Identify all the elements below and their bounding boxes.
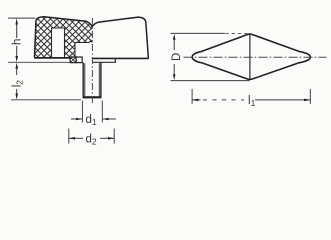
svg-text:D: D xyxy=(171,53,183,61)
l2 bottom extension line xyxy=(11,99,81,101)
d2 arrowhead pointing right xyxy=(108,137,114,140)
d2 arrowhead pointing left xyxy=(69,137,75,140)
l1 arrowhead pointing right xyxy=(304,99,310,102)
l1 left extension line xyxy=(191,89,193,104)
d1 left leader line xyxy=(71,118,82,120)
knob body outline (left edge, wing tops, saddle, right edge) xyxy=(35,17,149,59)
d1 right leader line xyxy=(103,118,116,120)
l1 dimension line left faded dashed part xyxy=(203,99,244,101)
moulding pocket cavity in left wing xyxy=(52,28,65,58)
dimension d2 (collar diameter) xyxy=(69,129,114,147)
d2 left extension line xyxy=(68,129,70,144)
d1 arrowhead pointing left xyxy=(103,118,109,121)
h arrowhead down xyxy=(15,56,18,62)
stud right major-diameter edge xyxy=(100,63,102,97)
d1 right extension line xyxy=(101,101,103,123)
body bottom edge, left of hub xyxy=(34,57,72,59)
D bottom extension line xyxy=(171,80,250,82)
l2 arrowhead up xyxy=(15,63,18,69)
l2 dimension line lower part xyxy=(16,89,18,96)
D dimension line upper part xyxy=(173,38,175,50)
dimension l1 (overall wing span) xyxy=(192,89,310,108)
d2 dimension line left part xyxy=(69,137,83,139)
D top extension line solid part xyxy=(171,32,226,34)
h arrowhead up xyxy=(15,18,18,24)
D arrowhead down xyxy=(173,74,176,80)
d2 right extension line xyxy=(113,129,115,144)
D top extension line faded dashed part xyxy=(226,32,249,34)
dimension D (wing width) xyxy=(171,33,250,80)
thread root line left xyxy=(84,63,86,96)
l2 dimension line upper part xyxy=(16,67,18,76)
dimension d1 (thread diameter) xyxy=(71,101,116,128)
collar ring section (hatched box, left of stud) xyxy=(70,57,82,63)
vertical centerline (dash-dot) of left figure xyxy=(91,18,93,105)
h dimension line upper part xyxy=(16,23,18,39)
dimension l2 (stud length) xyxy=(8,62,81,100)
l2 top extension line xyxy=(8,61,70,63)
d1 left extension line xyxy=(81,101,83,123)
l2 arrowhead down xyxy=(15,94,18,100)
stud left major-diameter edge xyxy=(82,63,84,97)
l1 dimension line right part xyxy=(255,99,310,101)
l1 arrowhead pointing left xyxy=(192,99,198,102)
wing top view outline (diamond with rounded tips) xyxy=(192,34,310,79)
section hatching of left wing (cut plastic) xyxy=(35,17,93,58)
h dimension line lower part xyxy=(16,46,18,58)
h top extension line xyxy=(8,17,36,19)
D arrowhead up xyxy=(173,34,176,40)
embedded insert head boundary (unsectioned metal) xyxy=(75,41,92,57)
d2 dimension line right part xyxy=(100,137,114,139)
threaded stud xyxy=(83,63,102,99)
svg-text:h: h xyxy=(12,39,24,45)
horizontal centerline (dash-dot) of top view xyxy=(184,56,327,58)
l1 dimension line left solid part xyxy=(192,99,200,101)
collar step, right side outside view xyxy=(93,58,116,62)
dimension h (overall height) xyxy=(8,18,36,62)
body bottom edge, right of hub xyxy=(93,57,149,59)
l1 right extension line xyxy=(309,89,311,104)
D dimension line lower part xyxy=(173,64,175,77)
stud chamfered end (thick) xyxy=(83,96,102,98)
thread root line right xyxy=(98,63,100,96)
d1 arrowhead pointing right xyxy=(76,118,82,121)
center ridge line of wings xyxy=(249,35,251,79)
insert shoulder box (white, unsectioned) xyxy=(76,57,82,63)
